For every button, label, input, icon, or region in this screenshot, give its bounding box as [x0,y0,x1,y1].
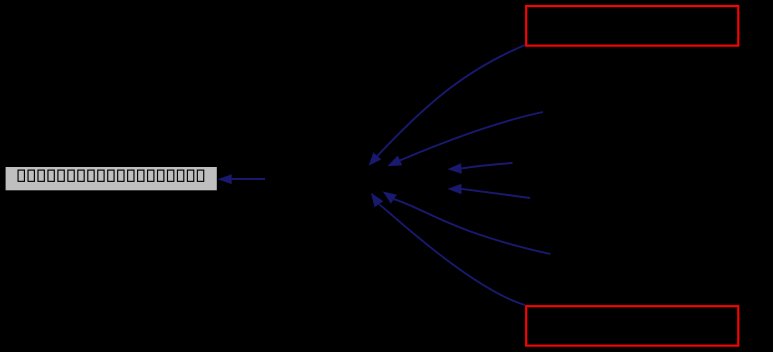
edge: bottom red box to center node (shaft) [379,204,525,305]
edge: hidden node 4 to center node (shaft) [462,189,531,198]
edge: hidden node 5 to center node (shaft) [394,199,551,254]
arrowhead: from hidden node 2 [387,156,402,167]
arrowhead: from hidden node 5 [383,191,397,203]
edge: hidden node 3 to center node (shaft) [462,163,513,168]
arrowhead: into gray node [218,153,462,208]
node: truncated caller (top red box) [526,6,738,46]
edge: center node to gray node (shaft) [232,45,551,305]
label: 19 missing-glyph (tofu) boxes inside gray node [18,170,204,181]
arrowhead: from bottom red box [371,193,383,208]
node: truncated caller (bottom red box) [526,306,738,346]
node: current function (gray filled box) [6,167,217,190]
arrowhead: from hidden node 4 [448,184,462,195]
arrowhead: from hidden node 3 [448,163,462,174]
edge: hidden node 2 to center node (shaft) [400,112,543,160]
edge: top red box to center node (shaft) [377,45,525,156]
arrowhead: from top red box [369,153,382,166]
